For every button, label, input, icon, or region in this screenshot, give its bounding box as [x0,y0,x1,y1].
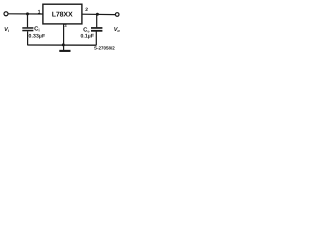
output terminal [115,13,119,17]
node input/C1 junction [26,12,29,15]
wire input to regulator [8,13,43,15]
capacitor C2 top lead [96,14,98,27]
node output/C2 junction [96,13,99,16]
capacitor C1 bottom lead [27,31,29,45]
svg-text:0.1µF: 0.1µF [81,34,94,40]
svg-text:0.33µF: 0.33µF [29,33,46,39]
capacitor C2 bottom lead [95,32,97,46]
svg-text:1: 1 [38,10,41,16]
input terminal [4,12,8,16]
svg-text:Ci: Ci [34,25,39,32]
node ground junction [62,43,65,46]
capacitor C1 top lead [27,14,29,27]
svg-text:2: 2 [85,7,88,13]
regulator box L78XX [43,4,82,24]
svg-text:S-27058/2: S-27058/2 [94,46,115,51]
ground symbol [59,50,70,52]
capacitor C1 plates [22,27,33,29]
svg-text:L78XX: L78XX [52,12,73,19]
ground rail wire [27,44,96,46]
wire regulator output to terminal [82,13,116,15]
capacitor C2 plates [91,27,102,29]
regulator ground pin wire [63,24,65,50]
